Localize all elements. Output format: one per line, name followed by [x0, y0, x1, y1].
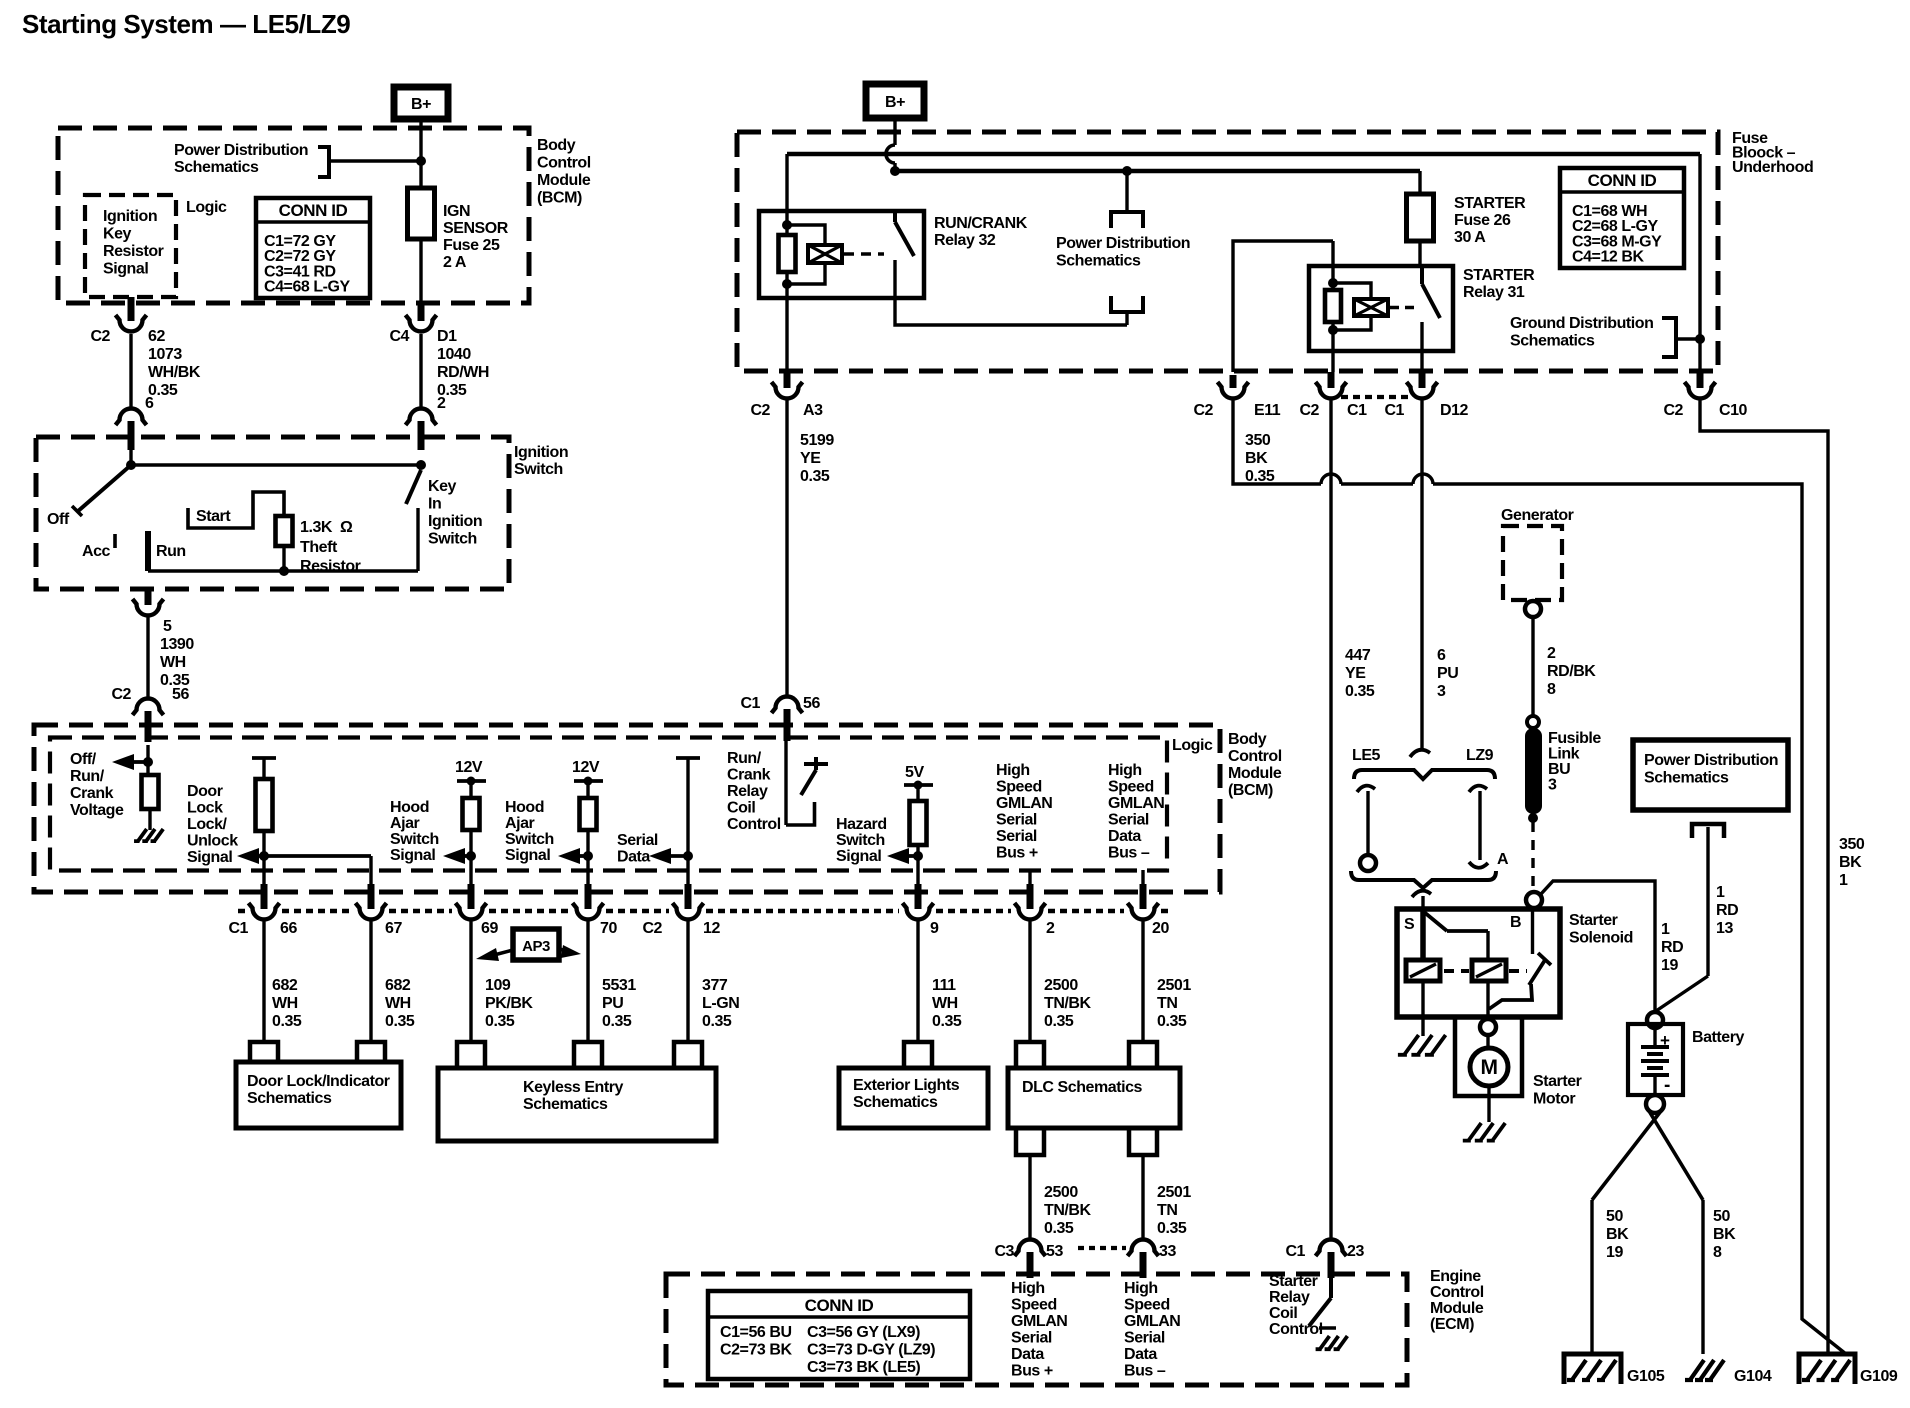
svg-text:53: 53	[1046, 1243, 1063, 1260]
svg-text:WH/BK: WH/BK	[148, 364, 201, 381]
svg-text:0.35: 0.35	[702, 1013, 732, 1030]
svg-text:Data: Data	[1108, 828, 1141, 845]
svg-text:Serial: Serial	[1011, 1330, 1052, 1347]
svg-text:Key: Key	[103, 226, 132, 243]
svg-text:High: High	[1011, 1280, 1045, 1297]
svg-text:C1: C1	[228, 920, 248, 937]
svg-text:Start: Start	[196, 508, 231, 525]
svg-text:Switch: Switch	[836, 832, 885, 849]
svg-text:C2: C2	[90, 328, 110, 345]
svg-text:Theft: Theft	[300, 539, 338, 556]
svg-text:Generator: Generator	[1501, 507, 1574, 524]
svg-text:69: 69	[481, 920, 498, 937]
svg-text:C10: C10	[1719, 402, 1748, 419]
svg-text:33: 33	[1159, 1243, 1176, 1260]
svg-text:0.35: 0.35	[485, 1013, 515, 1030]
svg-text:Data: Data	[1011, 1346, 1044, 1363]
svg-text:Hood: Hood	[505, 799, 544, 816]
svg-text:TN: TN	[1157, 1202, 1177, 1219]
svg-text:Speed: Speed	[1011, 1297, 1057, 1314]
svg-text:Speed: Speed	[1124, 1297, 1170, 1314]
svg-text:Logic: Logic	[186, 199, 227, 216]
svg-text:High: High	[1108, 762, 1142, 779]
svg-text:5V: 5V	[905, 764, 924, 781]
svg-text:Schematics: Schematics	[1644, 770, 1729, 787]
svg-text:Switch: Switch	[390, 831, 439, 848]
svg-text:Hazard: Hazard	[836, 816, 887, 833]
svg-text:50: 50	[1606, 1208, 1623, 1225]
svg-text:L-GN: L-GN	[702, 995, 739, 1012]
svg-text:0.35: 0.35	[1157, 1220, 1187, 1237]
svg-text:B+: B+	[885, 94, 905, 111]
svg-text:B: B	[1510, 914, 1521, 931]
svg-text:C1: C1	[1285, 1243, 1305, 1260]
svg-text:2501: 2501	[1157, 977, 1191, 994]
svg-text:Battery: Battery	[1692, 1029, 1745, 1046]
svg-text:GMLAN: GMLAN	[996, 795, 1052, 812]
svg-text:Bus –: Bus –	[1124, 1363, 1166, 1380]
svg-text:0.35: 0.35	[1345, 683, 1375, 700]
svg-text:WH: WH	[160, 654, 186, 671]
svg-text:Body: Body	[1228, 731, 1267, 748]
svg-text:66: 66	[280, 920, 297, 937]
svg-text:Schematics: Schematics	[174, 159, 259, 176]
svg-text:1390: 1390	[160, 636, 194, 653]
svg-text:C3=73 BK (LE5): C3=73 BK (LE5)	[807, 1359, 920, 1376]
svg-text:20: 20	[1152, 920, 1169, 937]
svg-text:Serial: Serial	[1124, 1330, 1165, 1347]
svg-text:C1: C1	[1384, 402, 1404, 419]
svg-text:19: 19	[1606, 1244, 1623, 1261]
svg-text:RUN/CRANK: RUN/CRANK	[934, 215, 1028, 232]
svg-text:2500: 2500	[1044, 977, 1078, 994]
svg-text:12V: 12V	[455, 759, 483, 776]
svg-text:19: 19	[1661, 957, 1678, 974]
svg-text:30 A: 30 A	[1454, 229, 1486, 246]
svg-text:Serial: Serial	[996, 812, 1037, 829]
svg-text:BU: BU	[1548, 761, 1570, 778]
svg-text:1: 1	[1661, 921, 1670, 938]
svg-text:13: 13	[1716, 920, 1733, 937]
svg-text:C4=68 L-GY: C4=68 L-GY	[264, 279, 351, 296]
svg-text:111: 111	[932, 977, 956, 994]
svg-text:12V: 12V	[572, 759, 600, 776]
svg-text:AP3: AP3	[522, 938, 550, 955]
svg-text:WH: WH	[932, 995, 958, 1012]
svg-text:Module: Module	[1228, 765, 1282, 782]
svg-text:G109: G109	[1860, 1368, 1898, 1385]
svg-text:RD/BK: RD/BK	[1547, 663, 1596, 680]
svg-text:Unlock: Unlock	[187, 833, 238, 850]
svg-text:BK: BK	[1713, 1226, 1736, 1243]
svg-text:Lock: Lock	[187, 800, 223, 817]
svg-text:RD: RD	[1661, 939, 1683, 956]
svg-text:0.35: 0.35	[602, 1013, 632, 1030]
svg-text:Coil: Coil	[1269, 1305, 1297, 1322]
svg-text:70: 70	[600, 920, 617, 937]
svg-text:Fuse 26: Fuse 26	[1454, 212, 1511, 229]
svg-text:Off/: Off/	[70, 751, 97, 768]
svg-text:Signal: Signal	[390, 847, 435, 864]
svg-text:Module: Module	[537, 172, 591, 189]
svg-text:Hood: Hood	[390, 799, 429, 816]
svg-text:LE5: LE5	[1352, 747, 1381, 764]
svg-text:CONN ID: CONN ID	[279, 201, 348, 220]
svg-text:STARTER: STARTER	[1463, 267, 1535, 284]
svg-text:Schematics: Schematics	[1056, 253, 1141, 270]
svg-text:62: 62	[148, 328, 165, 345]
svg-text:Switch: Switch	[505, 831, 554, 848]
svg-text:Schematics: Schematics	[247, 1090, 332, 1107]
svg-text:Run/: Run/	[727, 750, 762, 767]
svg-text:682: 682	[385, 977, 411, 994]
svg-text:Signal: Signal	[187, 849, 232, 866]
svg-text:2: 2	[437, 395, 446, 412]
svg-text:(ECM): (ECM)	[1430, 1316, 1474, 1333]
svg-text:RD: RD	[1716, 902, 1738, 919]
svg-text:2: 2	[1046, 920, 1055, 937]
svg-text:0.35: 0.35	[932, 1013, 962, 1030]
svg-text:C2=73 BK: C2=73 BK	[720, 1342, 792, 1359]
svg-text:B+: B+	[411, 96, 431, 113]
svg-text:56: 56	[803, 695, 820, 712]
svg-text:Door Lock/Indicator: Door Lock/Indicator	[247, 1073, 390, 1090]
svg-text:Solenoid: Solenoid	[1569, 930, 1633, 947]
svg-text:0.35: 0.35	[385, 1013, 415, 1030]
svg-text:1: 1	[1716, 884, 1725, 901]
svg-text:3: 3	[1548, 777, 1557, 794]
svg-text:M: M	[1480, 1056, 1497, 1079]
svg-text:(BCM): (BCM)	[1228, 782, 1273, 799]
svg-text:Crank: Crank	[70, 785, 114, 802]
svg-text:Door: Door	[187, 783, 223, 800]
svg-text:Signal: Signal	[836, 848, 881, 865]
svg-text:56: 56	[172, 686, 189, 703]
svg-text:TN/BK: TN/BK	[1044, 1202, 1092, 1219]
svg-text:C3: C3	[994, 1243, 1014, 1260]
svg-text:1073: 1073	[148, 346, 182, 363]
svg-text:G104: G104	[1734, 1368, 1772, 1385]
svg-text:8: 8	[1547, 681, 1556, 698]
svg-text:C2: C2	[1193, 402, 1213, 419]
svg-text:Ground Distribution: Ground Distribution	[1510, 315, 1653, 332]
svg-text:Schematics: Schematics	[1510, 333, 1595, 350]
svg-text:Starter: Starter	[1533, 1073, 1582, 1090]
svg-text:0.35: 0.35	[1044, 1013, 1074, 1030]
svg-text:WH: WH	[272, 995, 298, 1012]
svg-text:YE: YE	[800, 450, 821, 467]
svg-text:C4: C4	[389, 328, 409, 345]
svg-text:Ω: Ω	[340, 519, 353, 536]
svg-text:RD/WH: RD/WH	[437, 364, 489, 381]
svg-text:Fusible: Fusible	[1548, 730, 1601, 747]
svg-text:Bus +: Bus +	[1011, 1363, 1053, 1380]
svg-text:Signal: Signal	[103, 261, 148, 278]
svg-text:5: 5	[163, 618, 172, 635]
svg-text:GMLAN: GMLAN	[1124, 1313, 1180, 1330]
svg-text:Resistor: Resistor	[103, 243, 164, 260]
svg-text:1040: 1040	[437, 346, 471, 363]
svg-text:BK: BK	[1606, 1226, 1629, 1243]
svg-text:Starter: Starter	[1269, 1273, 1318, 1290]
svg-text:Data: Data	[617, 849, 650, 866]
svg-text:Power Distribution: Power Distribution	[1644, 752, 1778, 769]
svg-text:Link: Link	[1548, 746, 1580, 763]
svg-text:(BCM): (BCM)	[537, 190, 582, 207]
svg-text:Schematics: Schematics	[853, 1094, 938, 1111]
svg-text:GMLAN: GMLAN	[1108, 795, 1164, 812]
svg-text:C3=56 GY (LX9): C3=56 GY (LX9)	[807, 1324, 920, 1341]
svg-text:0.35: 0.35	[1044, 1220, 1074, 1237]
svg-text:A: A	[1497, 851, 1509, 868]
svg-text:Engine: Engine	[1430, 1268, 1481, 1285]
svg-text:Starting System — LE5/LZ9: Starting System — LE5/LZ9	[22, 9, 350, 39]
svg-text:Control: Control	[1430, 1284, 1484, 1301]
svg-text:WH: WH	[385, 995, 411, 1012]
svg-text:350: 350	[1839, 836, 1865, 853]
svg-text:BK: BK	[1839, 854, 1862, 871]
svg-text:0.35: 0.35	[1157, 1013, 1187, 1030]
svg-text:STARTER: STARTER	[1454, 195, 1526, 212]
svg-text:PU: PU	[1437, 665, 1458, 682]
svg-text:D1: D1	[437, 328, 457, 345]
svg-text:12: 12	[703, 920, 720, 937]
svg-text:PU: PU	[602, 995, 623, 1012]
svg-text:High: High	[1124, 1280, 1158, 1297]
svg-text:0.35: 0.35	[272, 1013, 302, 1030]
svg-text:S: S	[1404, 916, 1415, 933]
svg-text:6: 6	[145, 395, 154, 412]
svg-text:CONN ID: CONN ID	[805, 1296, 874, 1315]
svg-text:Control: Control	[1269, 1321, 1323, 1338]
svg-text:9: 9	[930, 920, 939, 937]
svg-text:Ajar: Ajar	[505, 815, 535, 832]
svg-text:Voltage: Voltage	[70, 802, 124, 819]
svg-text:8: 8	[1713, 1244, 1722, 1261]
svg-text:Body: Body	[537, 137, 576, 154]
svg-text:1: 1	[1839, 872, 1848, 889]
svg-text:PK/BK: PK/BK	[485, 995, 533, 1012]
svg-text:C1: C1	[1347, 402, 1367, 419]
svg-text:GMLAN: GMLAN	[1011, 1313, 1067, 1330]
svg-text:0.35: 0.35	[800, 468, 830, 485]
svg-text:6: 6	[1437, 647, 1446, 664]
svg-text:Keyless Entry: Keyless Entry	[523, 1079, 624, 1096]
svg-text:Key: Key	[428, 478, 457, 495]
svg-text:Ignition: Ignition	[428, 513, 482, 530]
svg-text:BK: BK	[1245, 450, 1268, 467]
svg-text:Ignition: Ignition	[514, 444, 568, 461]
svg-text:Control: Control	[537, 155, 591, 172]
svg-text:Power Distribution: Power Distribution	[1056, 235, 1190, 252]
svg-text:C1=56 BU: C1=56 BU	[720, 1324, 792, 1341]
svg-text:377: 377	[702, 977, 728, 994]
svg-text:IGN: IGN	[443, 203, 470, 220]
svg-text:Run/: Run/	[70, 768, 105, 785]
svg-text:Schematics: Schematics	[523, 1096, 608, 1113]
svg-text:G105: G105	[1627, 1368, 1665, 1385]
svg-text:3: 3	[1437, 683, 1446, 700]
svg-text:YE: YE	[1345, 665, 1366, 682]
svg-text:C2: C2	[111, 686, 131, 703]
svg-text:In: In	[428, 496, 441, 513]
svg-text:Logic: Logic	[1172, 737, 1213, 754]
svg-text:-: -	[1664, 1075, 1670, 1096]
svg-text:5531: 5531	[602, 977, 636, 994]
svg-text:LZ9: LZ9	[1466, 747, 1494, 764]
svg-text:Ajar: Ajar	[390, 815, 420, 832]
svg-text:High: High	[996, 762, 1030, 779]
svg-text:2500: 2500	[1044, 1184, 1078, 1201]
svg-text:109: 109	[485, 977, 511, 994]
svg-text:C4=12 BK: C4=12 BK	[1572, 249, 1644, 266]
svg-text:Bus +: Bus +	[996, 845, 1038, 862]
svg-text:447: 447	[1345, 647, 1371, 664]
svg-text:67: 67	[385, 920, 402, 937]
svg-text:Power Distribution: Power Distribution	[174, 142, 308, 159]
svg-text:Relay 31: Relay 31	[1463, 284, 1525, 301]
svg-text:Run: Run	[156, 543, 186, 560]
svg-text:C1: C1	[740, 695, 760, 712]
svg-text:2 A: 2 A	[443, 254, 467, 271]
svg-text:23: 23	[1347, 1243, 1364, 1260]
svg-text:C2: C2	[1663, 402, 1683, 419]
svg-text:Relay: Relay	[1269, 1289, 1310, 1306]
svg-text:Fuse 25: Fuse 25	[443, 237, 500, 254]
svg-text:A3: A3	[803, 402, 823, 419]
svg-text:C2: C2	[1299, 402, 1319, 419]
svg-text:Serial: Serial	[1108, 812, 1149, 829]
svg-text:Speed: Speed	[1108, 779, 1154, 796]
svg-text:D12: D12	[1440, 402, 1469, 419]
svg-text:Speed: Speed	[996, 779, 1042, 796]
svg-text:1.3K: 1.3K	[300, 519, 333, 536]
svg-text:Switch: Switch	[514, 461, 563, 478]
svg-text:DLC Schematics: DLC Schematics	[1022, 1079, 1143, 1096]
svg-text:TN/BK: TN/BK	[1044, 995, 1092, 1012]
svg-text:2: 2	[1547, 645, 1556, 662]
svg-text:C2: C2	[750, 402, 770, 419]
svg-text:Off: Off	[47, 511, 70, 528]
svg-text:Coil: Coil	[727, 800, 755, 817]
svg-text:50: 50	[1713, 1208, 1730, 1225]
svg-text:350: 350	[1245, 432, 1271, 449]
svg-text:682: 682	[272, 977, 298, 994]
svg-text:TN: TN	[1157, 995, 1177, 1012]
svg-text:Signal: Signal	[505, 847, 550, 864]
svg-text:Motor: Motor	[1533, 1091, 1575, 1108]
svg-text:C3=73 D-GY (LZ9): C3=73 D-GY (LZ9)	[807, 1342, 935, 1359]
svg-text:Relay 32: Relay 32	[934, 232, 996, 249]
svg-text:Switch: Switch	[428, 531, 477, 548]
svg-text:Starter: Starter	[1569, 912, 1618, 929]
svg-text:Exterior Lights: Exterior Lights	[853, 1077, 960, 1094]
svg-text:2501: 2501	[1157, 1184, 1191, 1201]
svg-text:Serial: Serial	[617, 832, 658, 849]
svg-text:C2: C2	[642, 920, 662, 937]
svg-text:Data: Data	[1124, 1346, 1157, 1363]
svg-text:5199: 5199	[800, 432, 834, 449]
svg-text:Crank: Crank	[727, 767, 771, 784]
svg-text:SENSOR: SENSOR	[443, 220, 509, 237]
svg-text:Lock/: Lock/	[187, 816, 228, 833]
svg-text:Bus –: Bus –	[1108, 845, 1150, 862]
svg-text:Relay: Relay	[727, 783, 768, 800]
svg-text:Module: Module	[1430, 1300, 1484, 1317]
svg-text:CONN ID: CONN ID	[1588, 171, 1657, 190]
svg-text:Serial: Serial	[996, 828, 1037, 845]
svg-text:E11: E11	[1254, 402, 1281, 419]
svg-text:Control: Control	[1228, 748, 1282, 765]
svg-text:Underhood: Underhood	[1732, 159, 1813, 176]
svg-text:Control: Control	[727, 816, 781, 833]
svg-text:Ignition: Ignition	[103, 208, 157, 225]
svg-text:Acc: Acc	[82, 543, 111, 560]
